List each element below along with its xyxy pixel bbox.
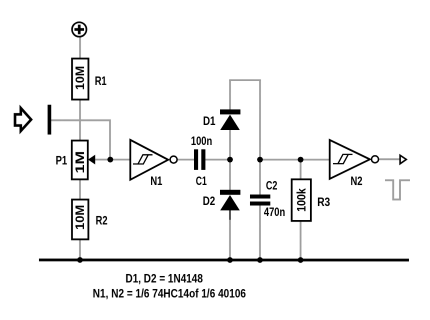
svg-text:D1, D2 = 1N4148: D1, D2 = 1N4148 — [125, 273, 203, 285]
svg-text:R2: R2 — [96, 213, 108, 227]
svg-text:P1: P1 — [56, 153, 68, 167]
svg-text:R1: R1 — [95, 74, 107, 88]
svg-text:N2: N2 — [350, 174, 362, 188]
svg-text:100k: 100k — [294, 188, 308, 212]
svg-text:N1, N2 = 1/6 74HC14of 1/6 4010: N1, N2 = 1/6 74HC14of 1/6 40106 — [93, 288, 246, 300]
svg-text:10M: 10M — [73, 205, 87, 230]
svg-text:C2: C2 — [266, 178, 278, 192]
svg-text:C1: C1 — [196, 174, 207, 188]
svg-text:10M: 10M — [73, 66, 87, 90]
svg-text:D1: D1 — [203, 114, 216, 128]
svg-text:470n: 470n — [264, 205, 285, 219]
svg-text:100n: 100n — [191, 134, 212, 148]
svg-text:D2: D2 — [203, 194, 216, 208]
svg-text:1M: 1M — [73, 151, 87, 174]
svg-text:N1: N1 — [150, 174, 162, 188]
svg-text:R3: R3 — [317, 195, 330, 209]
